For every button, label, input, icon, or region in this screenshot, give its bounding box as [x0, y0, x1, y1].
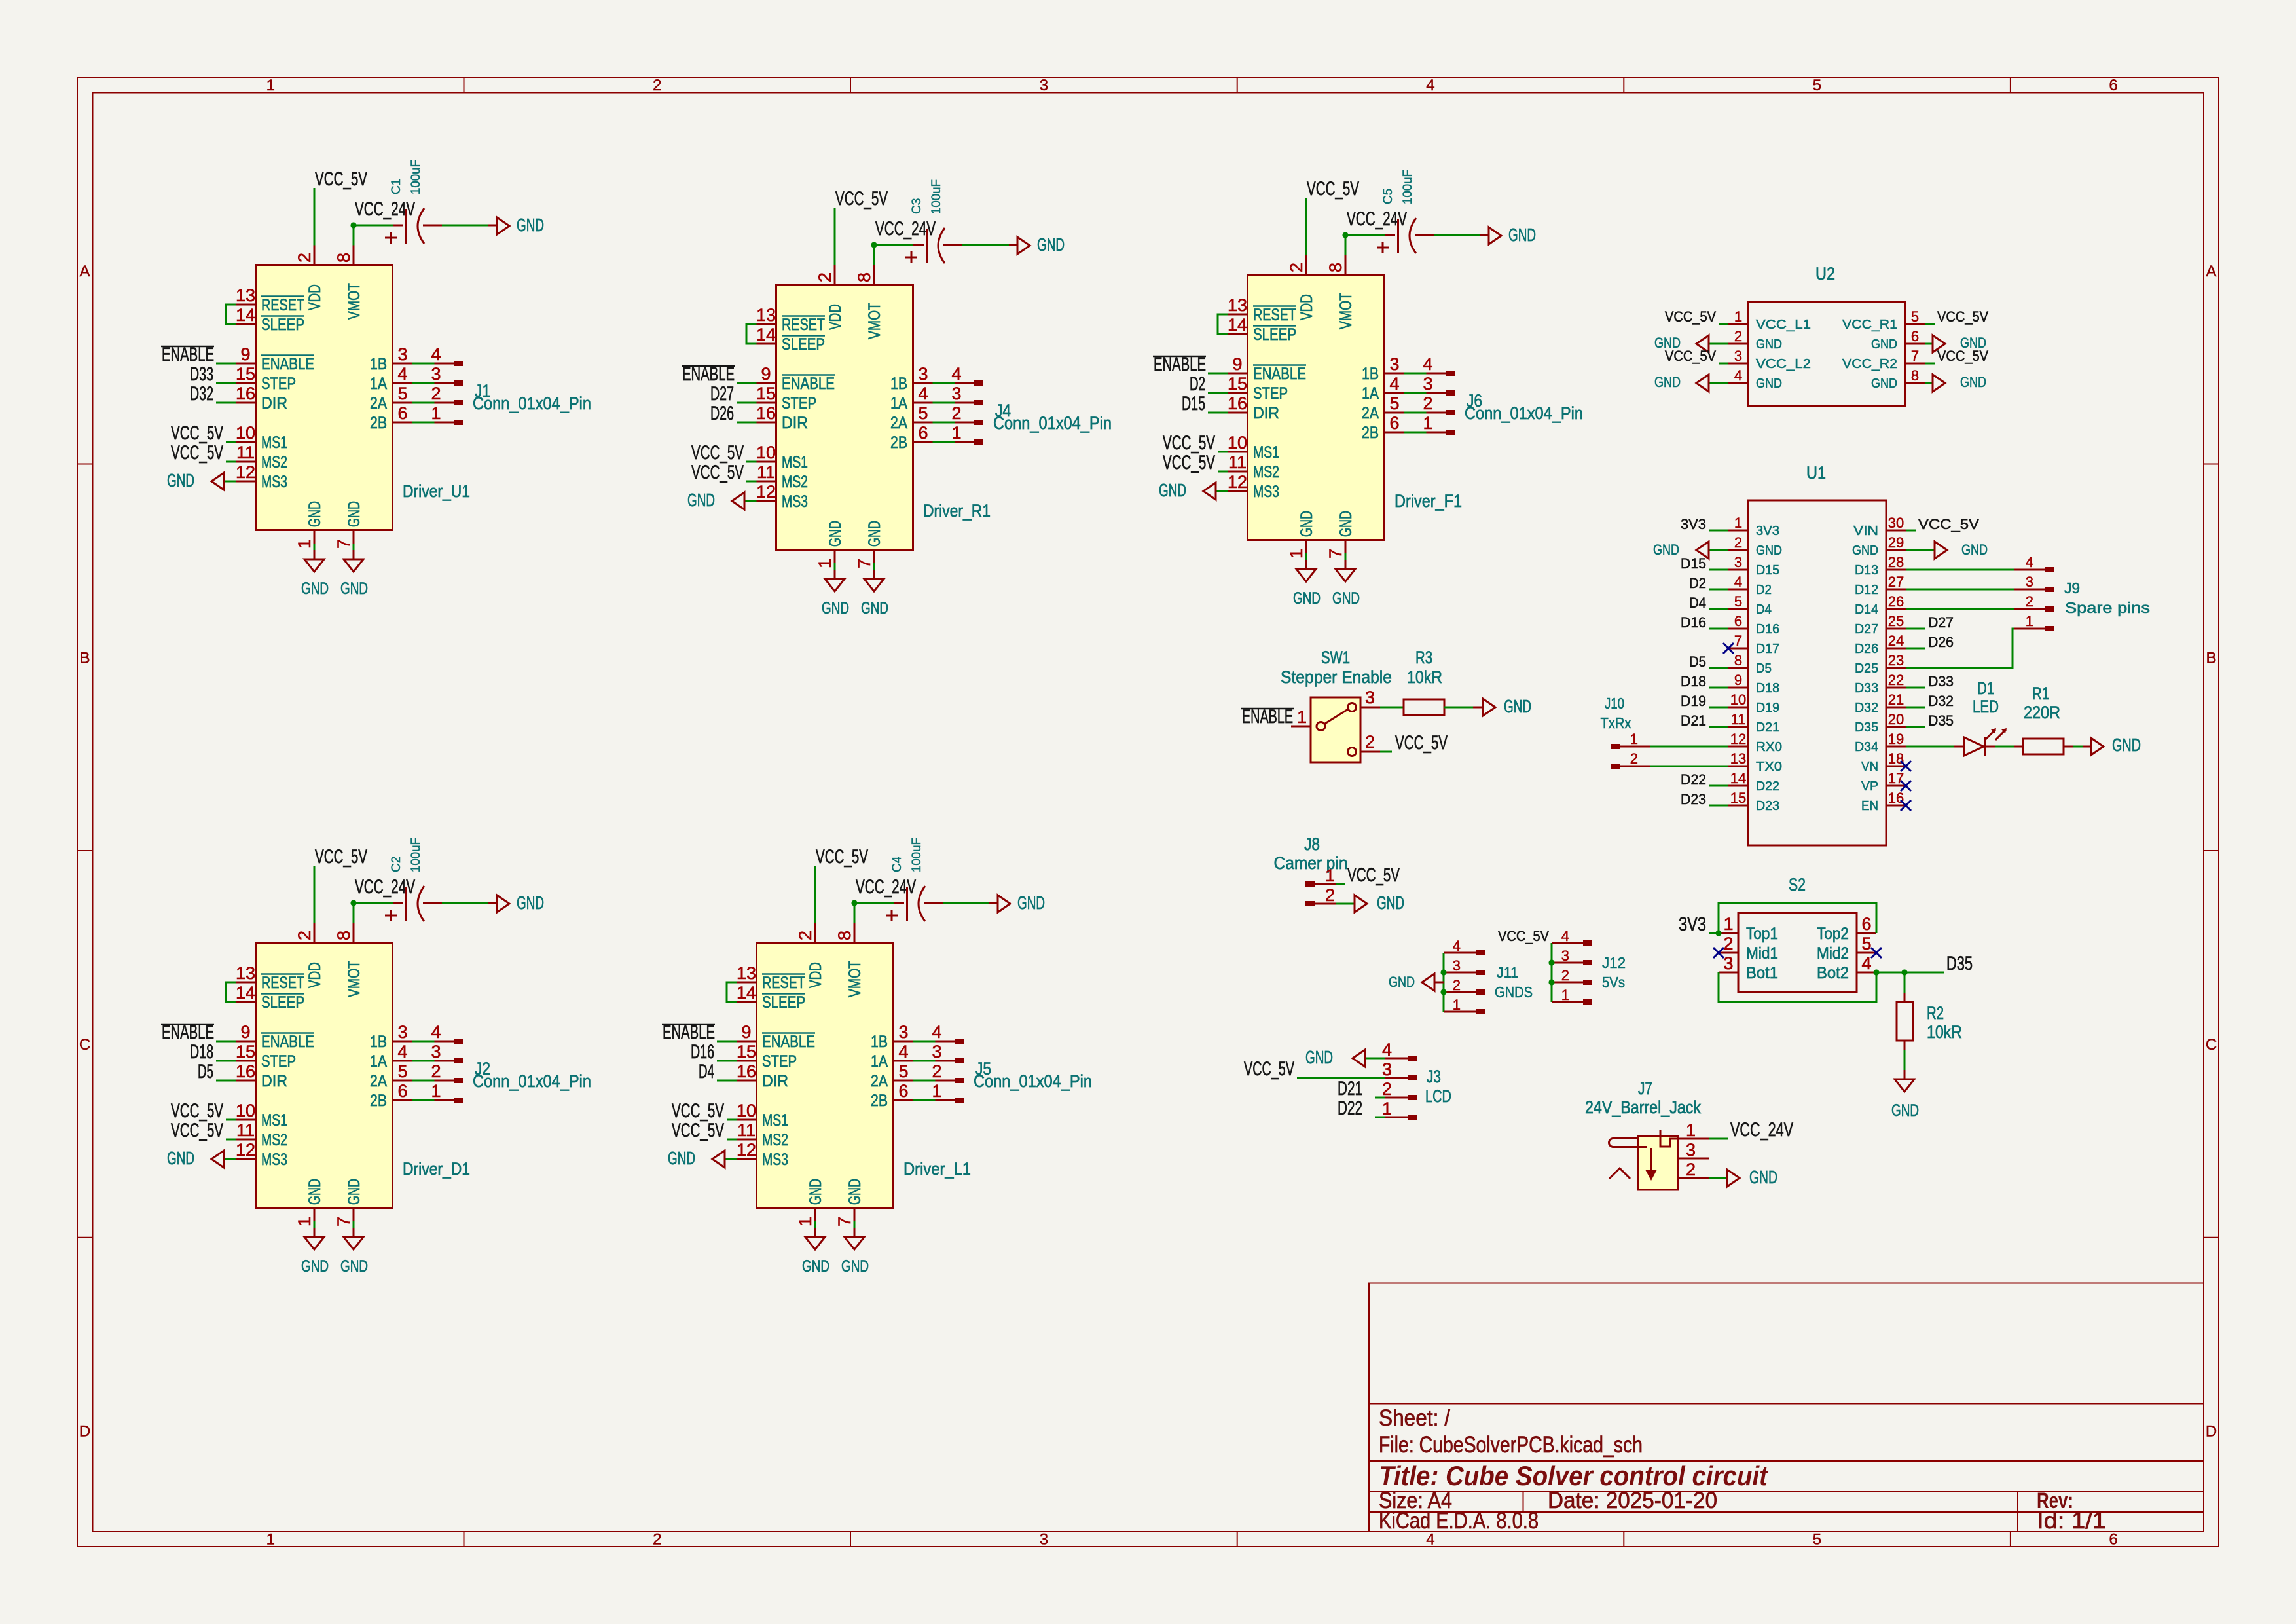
svg-text:GND: GND	[1871, 377, 1897, 391]
svg-text:5: 5	[1911, 308, 1919, 325]
svg-text:100uF: 100uF	[1401, 170, 1415, 204]
svg-text:U1: U1	[1806, 463, 1826, 483]
svg-text:D5: D5	[198, 1061, 213, 1082]
U1 pin 27 D12	[1886, 589, 1906, 591]
U2 pin 4 GND	[1728, 382, 1748, 384]
no-connect X at U1 VP	[1901, 781, 1911, 791]
svg-text:100uF: 100uF	[910, 838, 924, 872]
svg-text:D18: D18	[1756, 681, 1779, 695]
svg-text:Stepper Enable: Stepper Enable	[1281, 667, 1392, 687]
svg-text:4: 4	[1734, 574, 1742, 590]
J3 pin 3	[1385, 1077, 1408, 1079]
S2 pin 1 Top1	[1719, 932, 1738, 934]
svg-text:R3: R3	[1415, 648, 1432, 667]
SW1 pin 1	[1291, 726, 1311, 728]
svg-text:15: 15	[1730, 790, 1746, 806]
svg-text:J6: J6	[1467, 391, 1482, 411]
svg-text:Driver_D1: Driver_D1	[403, 1159, 470, 1179]
svg-text:25: 25	[1888, 613, 1904, 629]
U1 pin 10 D19	[1728, 707, 1748, 709]
svg-text:2: 2	[1734, 534, 1742, 551]
svg-text:D33: D33	[1928, 673, 1954, 690]
GND power symbol at U2 pin8	[1925, 382, 1933, 384]
U1 pin 20 D35	[1886, 726, 1906, 728]
svg-text:GND: GND	[1389, 974, 1415, 990]
svg-text:D33: D33	[190, 363, 213, 385]
stepper driver Driver_R1 with capacitor C3 and connector J4	[682, 188, 1112, 618]
GND power symbol at U2 pin2	[1709, 343, 1728, 345]
svg-text:5Vs: 5Vs	[1602, 974, 1625, 991]
stepper driver Driver_D1 with capacitor C2 and connector J2	[161, 846, 591, 1276]
svg-text:LCD: LCD	[1425, 1086, 1451, 1106]
svg-text:12: 12	[1730, 731, 1746, 747]
GND power symbol at U2 pin4	[1709, 382, 1728, 384]
U1 pin 24 D26	[1886, 648, 1906, 650]
svg-text:D18: D18	[1681, 673, 1706, 690]
svg-text:D19: D19	[1756, 701, 1779, 715]
no-connect X at S2 pin2	[1713, 948, 1724, 958]
connector J12 5Vs	[1551, 943, 1553, 1002]
svg-text:3: 3	[1686, 1140, 1696, 1160]
GND power symbol at U1 pin2	[1709, 549, 1728, 551]
net label D22	[1709, 785, 1728, 787]
U1 pin 22 D33	[1886, 687, 1906, 689]
svg-text:D15: D15	[1681, 555, 1706, 572]
svg-text:D23: D23	[1681, 791, 1706, 807]
switch S2 body	[1738, 913, 1857, 992]
svg-text:GND: GND	[1756, 337, 1782, 352]
barrel jack sleeve hook	[1609, 1139, 1647, 1147]
svg-text:J1: J1	[475, 381, 490, 401]
svg-text:20: 20	[1888, 711, 1904, 728]
svg-text:Camer pin: Camer pin	[1274, 853, 1348, 873]
svg-text:D17: D17	[1756, 642, 1779, 656]
svg-text:1: 1	[1561, 987, 1569, 1003]
svg-text:D22: D22	[1338, 1098, 1362, 1119]
svg-text:VCC_R2: VCC_R2	[1842, 357, 1897, 371]
svg-text:Title: Cube Solver control cir: Title: Cube Solver control circuit	[1379, 1460, 1769, 1491]
U1 pin 12 RX0	[1728, 746, 1748, 748]
label VCC_5V at J3 pin3	[1297, 1077, 1385, 1079]
svg-text:19: 19	[1888, 731, 1904, 747]
U2 pin 7 VCC_R2	[1905, 363, 1925, 365]
svg-text:D23: D23	[1756, 799, 1779, 813]
svg-text:GND: GND	[1749, 1167, 1777, 1187]
connector J11 GNDS	[1443, 953, 1445, 1012]
label 3V3 at S2 pin1	[1709, 932, 1719, 934]
svg-text:D16: D16	[1681, 614, 1706, 631]
wire D12 to J9 pin3	[1906, 589, 2014, 591]
svg-text:GND: GND	[1756, 377, 1782, 391]
svg-text:S2: S2	[1789, 875, 1806, 895]
S2 pin 2 Mid1	[1719, 952, 1738, 954]
svg-text:13: 13	[1730, 750, 1746, 767]
svg-text:D5: D5	[1756, 661, 1772, 676]
svg-text:4: 4	[1734, 367, 1742, 384]
U1 pin 3 D15	[1728, 569, 1748, 571]
svg-text:Mid1: Mid1	[1746, 944, 1778, 963]
GND power symbol at J7 pin2	[1727, 1170, 1740, 1187]
net label D16	[1709, 628, 1728, 630]
svg-text:1: 1	[266, 1531, 275, 1549]
svg-text:9: 9	[1734, 672, 1742, 688]
svg-text:J8: J8	[1304, 834, 1320, 854]
IC U2 body	[1748, 302, 1905, 406]
svg-text:3: 3	[1734, 554, 1742, 570]
svg-text:D21: D21	[1338, 1078, 1362, 1099]
svg-text:EN: EN	[1861, 799, 1878, 813]
svg-text:26: 26	[1888, 593, 1904, 610]
svg-text:4: 4	[1426, 77, 1434, 94]
svg-text:GND: GND	[2112, 735, 2141, 755]
svg-text:TxRx: TxRx	[1601, 714, 1631, 731]
J11 pin 3	[1444, 972, 1476, 974]
svg-text:Mid2: Mid2	[1817, 944, 1849, 963]
svg-text:GND: GND	[1960, 374, 1986, 390]
J7 pin 3	[1679, 1158, 1710, 1160]
svg-text:D: D	[79, 1422, 90, 1440]
net label D2	[1709, 589, 1728, 591]
U2 pin 3 VCC_L2	[1728, 363, 1748, 365]
connector J9 Spare pins	[2045, 567, 2054, 572]
net label D23	[1709, 805, 1728, 807]
svg-text:VN: VN	[1861, 760, 1878, 774]
svg-text:J5: J5	[975, 1059, 991, 1079]
svg-text:22: 22	[1888, 672, 1904, 688]
svg-text:2: 2	[1561, 967, 1569, 984]
svg-text:GND: GND	[1891, 1101, 1919, 1120]
svg-text:100uF: 100uF	[930, 179, 943, 214]
svg-text:VP: VP	[1861, 779, 1878, 794]
svg-text:D25: D25	[1855, 661, 1878, 676]
svg-text:VCC_L2: VCC_L2	[1756, 357, 1811, 371]
stepper driver Driver_L1 with capacitor C4 and connector J5	[662, 846, 1092, 1276]
wire D34 to LED D1	[1906, 746, 1954, 748]
svg-text:RX0: RX0	[1756, 740, 1782, 754]
net label D27	[1906, 628, 1925, 630]
svg-text:TX0: TX0	[1756, 760, 1782, 774]
svg-text:2: 2	[1630, 750, 1638, 767]
svg-text:3V3: 3V3	[1756, 524, 1779, 538]
svg-text:GND: GND	[1852, 544, 1878, 558]
GND power symbol at U1 pin29	[1906, 549, 1935, 551]
net label D33	[1906, 687, 1925, 689]
svg-text:1: 1	[1734, 308, 1742, 325]
svg-text:D12: D12	[1855, 583, 1878, 597]
no-connect X at S2 pin5	[1871, 948, 1882, 958]
svg-text:2: 2	[1723, 934, 1733, 953]
svg-text:VCC_5V: VCC_5V	[1665, 308, 1716, 325]
J7 pin 2	[1679, 1177, 1710, 1179]
GND power symbol at U2 pin6	[1925, 343, 1933, 345]
U1 pin 26 D14	[1886, 608, 1906, 610]
U1 pin 14 D22	[1728, 785, 1748, 787]
label VCC_5V at U2 pin7	[1925, 363, 1935, 365]
svg-text:6: 6	[1734, 613, 1742, 629]
svg-text:D34: D34	[1855, 740, 1878, 754]
svg-text:3: 3	[1382, 1060, 1392, 1079]
U1 pin 30 VIN	[1886, 530, 1906, 532]
svg-text:GND: GND	[1305, 1047, 1333, 1067]
svg-text:VCC_5V: VCC_5V	[1937, 348, 1988, 364]
svg-text:D21: D21	[1681, 712, 1706, 729]
svg-text:1: 1	[1453, 997, 1461, 1013]
net label D35	[1906, 726, 1925, 728]
U1 pin 21 D32	[1886, 707, 1906, 709]
svg-text:D22: D22	[1681, 771, 1706, 788]
J12 pin 1	[1552, 1001, 1583, 1003]
net label D5	[1709, 667, 1728, 669]
svg-text:VIN: VIN	[1853, 524, 1878, 538]
svg-text:8: 8	[1734, 652, 1742, 669]
svg-text:SW1: SW1	[1321, 648, 1350, 667]
svg-text:100uF: 100uF	[409, 838, 423, 872]
svg-text:D26: D26	[710, 403, 734, 424]
J3 pin 1	[1385, 1116, 1408, 1118]
svg-text:J12: J12	[1602, 954, 1626, 971]
svg-text:1: 1	[266, 77, 275, 94]
net label D4	[1709, 608, 1728, 610]
svg-text:Top1: Top1	[1746, 925, 1778, 943]
svg-text:2: 2	[1686, 1160, 1696, 1179]
svg-text:2: 2	[1382, 1079, 1392, 1099]
barrel jack tip	[1660, 1130, 1678, 1147]
svg-text:C1: C1	[390, 179, 403, 194]
svg-text:Sheet: /: Sheet: /	[1379, 1405, 1450, 1431]
svg-text:C2: C2	[390, 857, 403, 872]
svg-text:2: 2	[1365, 732, 1375, 752]
IC U1 ESP32 module body	[1748, 500, 1886, 845]
svg-text:D26: D26	[1928, 634, 1954, 650]
svg-text:10kR: 10kR	[1927, 1022, 1962, 1042]
svg-text:D32: D32	[1928, 693, 1954, 709]
svg-text:VCC_R1: VCC_R1	[1842, 318, 1897, 332]
svg-text:1: 1	[1382, 1099, 1392, 1118]
J12 pin 2	[1552, 982, 1583, 984]
svg-text:J10: J10	[1605, 695, 1624, 712]
svg-text:1: 1	[1686, 1120, 1696, 1140]
svg-text:1: 1	[1734, 515, 1742, 531]
no-connect X at U1 VN	[1901, 761, 1911, 771]
svg-text:D21: D21	[1756, 720, 1779, 735]
no-connect X at U1 EN	[1901, 800, 1911, 811]
U1 pin 15 D23	[1728, 805, 1748, 807]
barrel jack chevron	[1609, 1168, 1630, 1179]
svg-text:4: 4	[1861, 953, 1871, 973]
J11 pin 4	[1444, 952, 1476, 954]
svg-text:GND: GND	[1504, 696, 1531, 716]
svg-text:5: 5	[1813, 1531, 1821, 1549]
U1 pin 25 D27	[1886, 628, 1906, 630]
J3 pin 4	[1385, 1058, 1408, 1060]
svg-text:D2: D2	[1756, 583, 1772, 597]
U2 pin 5 VCC_R1	[1905, 323, 1925, 325]
svg-text:D16: D16	[691, 1041, 714, 1063]
svg-text:30: 30	[1888, 515, 1904, 531]
svg-text:J7: J7	[1638, 1079, 1652, 1098]
U1 pin 13 TX0	[1728, 766, 1748, 767]
svg-text:7: 7	[1911, 348, 1919, 364]
SW1 pin 3	[1360, 707, 1380, 709]
no-connect X at U1 pin7	[1723, 643, 1734, 654]
svg-text:Bot1: Bot1	[1746, 964, 1778, 982]
svg-text:GND: GND	[1653, 542, 1679, 558]
svg-text:14: 14	[1730, 770, 1746, 786]
svg-text:3: 3	[2026, 574, 2033, 590]
net label D18	[1709, 687, 1728, 689]
svg-text:Driver_R1: Driver_R1	[923, 501, 991, 521]
svg-text:6: 6	[2109, 1531, 2117, 1549]
svg-text:2: 2	[653, 1531, 661, 1549]
svg-text:D32: D32	[190, 383, 213, 405]
U2 pin 1 VCC_L1	[1728, 323, 1748, 325]
svg-text:GND: GND	[1871, 337, 1897, 352]
wire D25 to J9 pin1	[1906, 629, 2014, 668]
U2 pin 2 GND	[1728, 343, 1748, 345]
resistor R1 220R	[2023, 739, 2064, 754]
J12 pin 4	[1552, 942, 1583, 944]
svg-text:D5: D5	[1689, 654, 1706, 670]
svg-text:D15: D15	[1182, 393, 1205, 415]
svg-text:6: 6	[1861, 914, 1871, 934]
net label D26	[1906, 648, 1925, 650]
svg-text:5: 5	[1861, 934, 1871, 953]
barrel jack switch arrow	[1650, 1148, 1652, 1170]
svg-text:17: 17	[1888, 770, 1904, 786]
svg-text:Date: 2025-01-20: Date: 2025-01-20	[1548, 1488, 1717, 1513]
svg-text:D26: D26	[1855, 642, 1878, 656]
label VCC_5V at U2 pin3	[1719, 363, 1728, 365]
GND power symbol at J3 pin4	[1365, 1058, 1385, 1060]
U1 pin 18 VN	[1886, 766, 1906, 767]
svg-text:3: 3	[1040, 77, 1048, 94]
svg-text:1: 1	[1723, 914, 1733, 934]
U1 pin 11 D21	[1728, 726, 1748, 728]
svg-text:D18: D18	[190, 1041, 213, 1063]
U1 pin 4 D2	[1728, 589, 1748, 591]
wire D13 to J9 pin4	[1906, 569, 2014, 571]
stepper driver Driver_U1 with capacitor C1 and connector J1	[161, 168, 591, 598]
svg-text:Driver_U1: Driver_U1	[403, 481, 470, 501]
svg-text:D27: D27	[710, 383, 734, 405]
svg-text:1: 1	[2026, 613, 2033, 629]
stepper driver Driver_F1 with capacitor C5 and connector J6	[1153, 178, 1583, 608]
svg-text:Top2: Top2	[1817, 925, 1849, 943]
svg-text:D14: D14	[1855, 602, 1878, 617]
wire S2 pin4 to D35 and R2	[1873, 969, 1879, 975]
svg-text:A: A	[79, 263, 90, 280]
S2 pin 5 Mid2	[1857, 952, 1876, 954]
svg-text:4: 4	[1453, 938, 1461, 954]
svg-text:D22: D22	[1756, 779, 1779, 794]
svg-text:23: 23	[1888, 652, 1904, 669]
svg-text:3: 3	[1453, 957, 1461, 974]
S2 pin 4 Bot2	[1857, 972, 1876, 974]
label VCC_5V at U2 pin1	[1719, 323, 1728, 325]
GND power symbol at J8 pin2	[1355, 895, 1367, 912]
svg-text:C5: C5	[1381, 189, 1395, 204]
svg-text:VCC_5V: VCC_5V	[1665, 348, 1716, 364]
svg-text:6: 6	[2109, 77, 2117, 94]
svg-text:D13: D13	[1855, 563, 1878, 578]
U1 pin 1 3V3	[1728, 530, 1748, 532]
svg-text:5: 5	[1734, 593, 1742, 610]
svg-text:2: 2	[653, 77, 661, 94]
net label D21 at J3 pin2	[1375, 1097, 1385, 1099]
svg-text:100uF: 100uF	[409, 160, 423, 194]
svg-text:GND: GND	[1756, 544, 1782, 558]
U1 pin 29 GND	[1886, 549, 1906, 551]
svg-text:220R: 220R	[2024, 703, 2060, 722]
svg-text:27: 27	[1888, 574, 1904, 590]
connector J7 24V_Barrel_Jack body	[1638, 1137, 1679, 1190]
net label D32	[1906, 707, 1925, 709]
LED D1	[1964, 737, 1985, 756]
svg-text:3: 3	[1734, 348, 1742, 364]
svg-text:24: 24	[1888, 633, 1904, 649]
svg-text:D27: D27	[1855, 622, 1878, 637]
U1 pin 7 D17	[1728, 648, 1748, 650]
svg-text:GNDS: GNDS	[1495, 984, 1533, 1001]
U1 pin 6 D16	[1728, 628, 1748, 630]
svg-text:D35: D35	[1946, 953, 1973, 974]
svg-text:D33: D33	[1855, 681, 1878, 695]
svg-text:4: 4	[2026, 554, 2033, 570]
S2 pin 6 Top2	[1857, 932, 1876, 934]
svg-text:10: 10	[1730, 692, 1746, 708]
svg-text:2: 2	[1325, 885, 1335, 905]
J3 pin 2	[1385, 1097, 1408, 1099]
wire LED to R1	[1986, 746, 1995, 748]
svg-text:VCC_24V: VCC_24V	[1730, 1119, 1793, 1141]
svg-text:J11: J11	[1497, 964, 1518, 981]
S2 pin 3 Bot1	[1719, 972, 1738, 974]
svg-text:1: 1	[1630, 731, 1638, 747]
svg-text:D27: D27	[1928, 614, 1954, 631]
svg-text:2: 2	[2026, 593, 2033, 610]
svg-text:C4: C4	[890, 856, 904, 872]
svg-text:10kR: 10kR	[1407, 667, 1442, 687]
svg-text:24V_Barrel_Jack: 24V_Barrel_Jack	[1585, 1098, 1701, 1117]
svg-text:Driver_L1: Driver_L1	[903, 1159, 971, 1179]
svg-text:3V3: 3V3	[1679, 913, 1706, 935]
wire S2 top loop pin1-pin6	[1719, 903, 1876, 933]
U1 pin 5 D4	[1728, 608, 1748, 610]
svg-text:VCC_5V: VCC_5V	[1937, 308, 1988, 325]
GND power symbol at J11	[1434, 982, 1444, 984]
svg-text:D2: D2	[1689, 575, 1706, 591]
J12 pin 3	[1552, 962, 1583, 964]
svg-text:R1: R1	[2032, 684, 2049, 703]
U1 pin 2 GND	[1728, 549, 1748, 551]
svg-text:VCC_L1: VCC_L1	[1756, 318, 1811, 332]
svg-text:B: B	[2206, 649, 2216, 667]
svg-text:11: 11	[1731, 711, 1746, 728]
svg-text:D35: D35	[1855, 720, 1878, 735]
svg-text:GND: GND	[1377, 893, 1404, 913]
svg-text:3V3: 3V3	[1681, 516, 1706, 532]
wire D14 to J9 pin2	[1906, 608, 2014, 610]
svg-text:A: A	[2206, 263, 2216, 280]
svg-text:C: C	[79, 1036, 90, 1054]
svg-text:D: D	[2206, 1422, 2217, 1440]
svg-text:D32: D32	[1855, 701, 1878, 715]
title block frame	[1369, 1283, 2204, 1532]
wire S2 bottom loop pin3-pin4	[1719, 972, 1876, 1002]
resistor R2 10kR	[1904, 972, 1906, 993]
svg-text:D19: D19	[1681, 693, 1706, 709]
svg-text:VCC_5V: VCC_5V	[1347, 864, 1400, 886]
